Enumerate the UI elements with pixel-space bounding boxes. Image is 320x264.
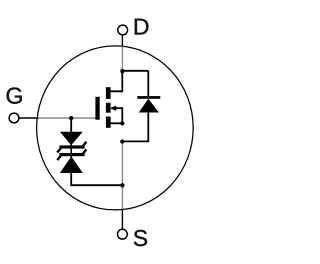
zener Z2 cathode bar with hooks — [59, 153, 84, 156]
body diode D1 triangle — [139, 99, 159, 113]
node: zener-source junction — [120, 183, 124, 187]
terminal G circle — [9, 113, 19, 123]
wire: zener stack middle axis — [70, 145, 72, 158]
wire: gate lead inside package (gray) — [38, 117, 96, 119]
wire: source wire inside package (gray) — [121, 142, 123, 210]
label G — [7, 88, 22, 104]
wire: gate lead outside package (black) — [19, 117, 39, 119]
transistor Q1 channel segment (body) — [106, 103, 111, 113]
body diode D1 cathode bar — [137, 96, 160, 99]
transistor Q1 body arrow head — [110, 106, 116, 111]
wire: body diode anode down and left to source node — [122, 112, 148, 141]
zener Z2 triangle (pointing up) — [60, 156, 83, 173]
wire: MOSFET body stub with arrow to source — [112, 108, 123, 123]
node: diode anode junction — [120, 139, 124, 143]
terminal D circle — [118, 25, 128, 35]
wire: MOSFET source stub — [111, 122, 123, 124]
wire: node D down and left to MOSFET drain — [111, 71, 123, 92]
transistor Q1 gate bar — [95, 97, 99, 120]
wire: drain lead outside package (black) — [121, 35, 123, 47]
node: source stub junction — [120, 121, 124, 125]
zener Z1 triangle (pointing down) — [60, 132, 83, 145]
wire: drain lead inside package (gray) — [121, 46, 123, 71]
terminal S circle — [118, 229, 128, 239]
wire: zener stack bottom to source node — [71, 173, 122, 186]
package outline circle — [37, 46, 194, 210]
wire: source lead outside package (black) — [121, 209, 123, 229]
transistor Q1 channel segment (source) — [106, 117, 111, 128]
wire: node D horizontal to body diode cathode — [122, 70, 148, 72]
wire: body diode cathode vertical — [147, 71, 149, 97]
wire: gate node down to zener stack — [70, 118, 72, 133]
label S — [134, 230, 147, 246]
label D — [135, 19, 149, 35]
node: drain junction — [120, 69, 124, 73]
transistor Q1 channel segment (drain) — [106, 87, 111, 99]
node: gate-zener junction — [69, 116, 73, 120]
zener Z1 cathode bar with hooks — [59, 145, 84, 148]
